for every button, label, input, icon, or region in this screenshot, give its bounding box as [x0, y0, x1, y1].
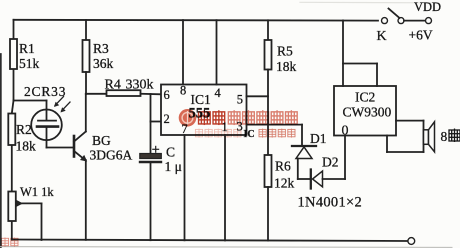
svg-text:6: 6: [164, 88, 170, 102]
svg-text:8: 8: [441, 129, 448, 144]
svg-text:0: 0: [342, 124, 349, 139]
svg-text:1 μ: 1 μ: [165, 159, 182, 174]
scan artifact top edge: [300, 1, 432, 4]
value label R1 51k: [19, 41, 40, 71]
svg-text:3DG6A: 3DG6A: [90, 148, 133, 163]
IC2 CW9300 box: [334, 86, 396, 136]
svg-text:W1 1k: W1 1k: [20, 185, 54, 199]
wire emitter down to ground rail: [85, 160, 87, 240]
wire pins 6-2 tie and capacitor branch: [151, 94, 162, 240]
svg-text:CW9300: CW9300: [343, 105, 392, 120]
watermark fragment bottom left: [1, 238, 18, 247]
wire IC2 bottom pin to speaker bottom: [387, 136, 424, 153]
wire pin 4 to rail: [216, 20, 218, 84]
svg-text:4: 4: [215, 86, 222, 100]
wire D1 anode to D2 cathode: [298, 159, 310, 180]
wire pin 3 output: [247, 125, 303, 146]
svg-text:2CR33: 2CR33: [24, 84, 66, 99]
svg-text:2: 2: [164, 112, 170, 126]
svg-text:R5: R5: [277, 44, 293, 59]
wire photocell to transistor base: [47, 140, 74, 148]
svg-text:C: C: [166, 145, 175, 160]
value label R6 12k: [274, 159, 295, 191]
watermark text line 1 bold part: [199, 110, 225, 125]
wire pin 1 to ground rail: [224, 135, 226, 240]
svg-text:VDD: VDD: [414, 0, 441, 14]
resistor R5: [265, 40, 272, 70]
capacitor C 1u: [140, 146, 162, 162]
svg-text:12k: 12k: [274, 176, 295, 191]
photocell 2CR33: [31, 110, 62, 141]
wire pin 8 to rail: [182, 20, 184, 84]
watermark logo disc: [179, 109, 197, 127]
wire pin 7 to ground rail: [184, 135, 186, 240]
svg-text:R2: R2: [16, 122, 32, 137]
svg-text:R1: R1: [19, 41, 35, 56]
wire photocell branch: [14, 101, 47, 110]
resistor R6: [265, 155, 272, 187]
wire R5 to R6: [267, 70, 269, 156]
scan artifact left edge: [0, 54, 2, 248]
node ground terminal circle: [408, 238, 415, 245]
value label R2 18k: [16, 122, 37, 154]
svg-text:8: 8: [180, 84, 186, 98]
resistor R1: [10, 39, 17, 69]
speaker 8 ohm: [424, 121, 435, 152]
value label 8 ohm speaker: [441, 129, 460, 145]
wire R5 branch from rail: [267, 20, 269, 40]
value label R3 36k: [93, 41, 114, 71]
scan artifact bottom edge: [0, 246, 452, 248]
wire collector up to R3/R4 node: [85, 94, 87, 132]
svg-text:R3: R3: [93, 41, 109, 56]
watermark text line 1 light part: [228, 110, 297, 125]
resistor R4: [107, 90, 141, 96]
resistor R2: [8, 114, 15, 146]
svg-text:R4: R4: [105, 78, 121, 93]
value label C 1u: [165, 145, 182, 175]
wire pin 5 to divider node: [247, 95, 269, 97]
wire IC2 right pin to speaker top: [396, 120, 424, 122]
resistor R3: [83, 40, 90, 72]
value label R5 18k: [276, 44, 297, 75]
potentiometer W1: [8, 192, 41, 241]
svg-text:5: 5: [237, 92, 243, 106]
diode D2: [311, 170, 323, 189]
wire node to R4: [86, 93, 107, 95]
transistor BG 3DG6A: [74, 132, 87, 162]
wire IC2 supply loop from rail: [343, 20, 377, 86]
svg-text:R6: R6: [275, 159, 291, 174]
svg-text:330k: 330k: [126, 78, 154, 93]
wire R4 to pin6: [141, 93, 162, 96]
svg-text:IC2: IC2: [355, 90, 375, 105]
svg-text:D1: D1: [310, 131, 327, 146]
watermark text line 2: [195, 129, 241, 138]
svg-text:K: K: [377, 29, 387, 44]
wire left branch vertical (R1/R2/W1 column): [13, 20, 15, 101]
value label IC2 CW9300: [343, 90, 392, 120]
svg-text:D2: D2: [322, 155, 339, 170]
wire top supply rail: [14, 19, 379, 22]
svg-text:IC: IC: [244, 129, 255, 140]
op-amp-style IC1 555 box: [161, 85, 247, 136]
diode D1: [292, 146, 316, 159]
wire R3 bottom to node: [85, 72, 87, 94]
wire bottom ground rail: [12, 240, 408, 242]
value label IC1 555: [189, 92, 211, 122]
wire R3 branch from rail: [85, 20, 87, 40]
svg-text:18k: 18k: [276, 59, 297, 74]
svg-text:51k: 51k: [19, 56, 40, 71]
wire R6 to ground rail: [267, 187, 269, 241]
svg-text:1N4001×2: 1N4001×2: [298, 195, 363, 211]
switch K: [382, 9, 432, 24]
pin number labels IC1: [164, 84, 244, 136]
svg-text:+6V: +6V: [409, 28, 433, 43]
svg-text:BG: BG: [92, 133, 111, 148]
svg-text:18k: 18k: [16, 139, 37, 154]
wire D2 anode to IC2 pin 0: [323, 136, 346, 180]
light arrows into photocell: [54, 97, 70, 113]
svg-text:36k: 36k: [93, 56, 114, 71]
value label BG 3DG6A: [90, 133, 133, 163]
